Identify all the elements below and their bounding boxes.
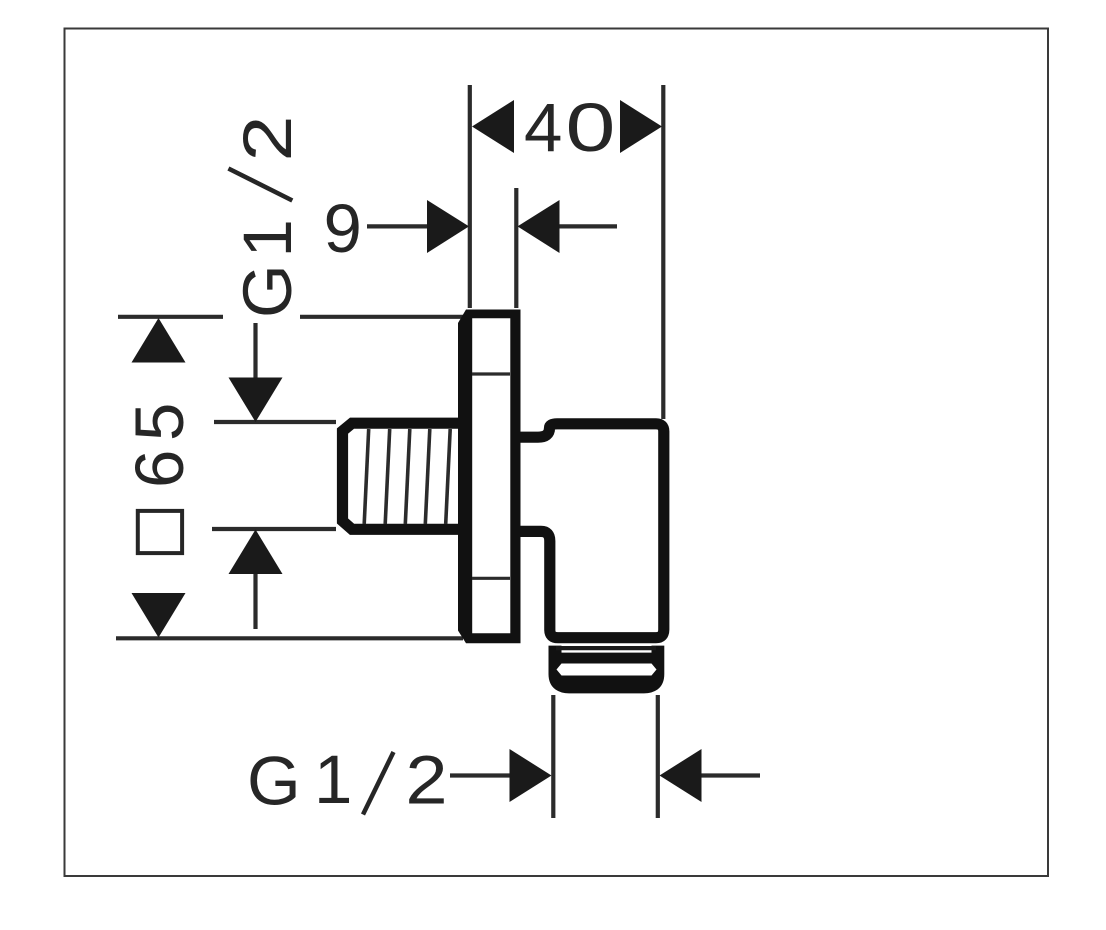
- svg-text:G: G: [247, 743, 301, 820]
- svg-text:5: 5: [121, 403, 198, 441]
- svg-text:G: G: [229, 264, 306, 318]
- svg-text:6: 6: [121, 450, 198, 488]
- svg-text:4: 4: [524, 89, 562, 166]
- svg-text:2: 2: [405, 742, 447, 819]
- svg-text:9: 9: [324, 190, 362, 267]
- svg-text:2: 2: [229, 115, 306, 161]
- svg-text:1: 1: [314, 741, 352, 818]
- svg-text:0: 0: [566, 89, 616, 166]
- svg-text:1: 1: [229, 219, 306, 257]
